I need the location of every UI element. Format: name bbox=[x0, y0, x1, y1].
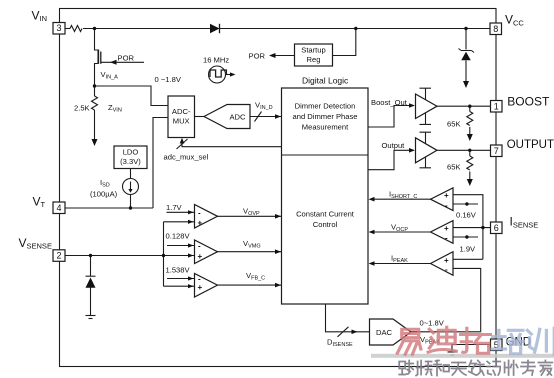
svg-text:1: 1 bbox=[494, 101, 499, 111]
svg-text:4: 4 bbox=[56, 203, 61, 213]
svg-text:Control: Control bbox=[313, 220, 338, 229]
svg-text:Boost_Out: Boost_Out bbox=[371, 98, 408, 107]
svg-text:DAC: DAC bbox=[376, 328, 393, 337]
svg-text:(100µA): (100µA) bbox=[90, 190, 118, 199]
svg-text:+: + bbox=[198, 252, 203, 261]
svg-text:0.128V: 0.128V bbox=[166, 232, 191, 241]
svg-text:adc_mux_sel: adc_mux_sel bbox=[164, 153, 209, 162]
svg-text:8: 8 bbox=[493, 24, 498, 34]
svg-text:and Dimmer Phase: and Dimmer Phase bbox=[293, 112, 358, 121]
svg-text:(3.3V): (3.3V) bbox=[120, 157, 141, 166]
svg-text:6: 6 bbox=[494, 223, 499, 233]
svg-text:+: + bbox=[444, 224, 449, 233]
svg-text:LDO: LDO bbox=[123, 148, 139, 157]
svg-text:POR: POR bbox=[118, 54, 135, 63]
svg-text:+: + bbox=[444, 256, 449, 265]
svg-text:+: + bbox=[444, 191, 449, 200]
svg-text:BOOST: BOOST bbox=[507, 94, 550, 108]
svg-text:-: - bbox=[198, 242, 201, 251]
svg-text:1.538V: 1.538V bbox=[166, 266, 191, 275]
svg-text:ADC-: ADC- bbox=[172, 107, 191, 116]
svg-text:1.9V: 1.9V bbox=[460, 245, 477, 254]
svg-text:0.16V: 0.16V bbox=[456, 210, 477, 219]
svg-text:65K: 65K bbox=[447, 120, 461, 129]
svg-text:-: - bbox=[445, 265, 448, 274]
svg-text:2.5K: 2.5K bbox=[74, 103, 90, 112]
svg-text:POR: POR bbox=[249, 52, 266, 61]
svg-text:7: 7 bbox=[494, 146, 499, 156]
svg-text:Startup: Startup bbox=[301, 46, 325, 55]
svg-text:OUTPUT: OUTPUT bbox=[507, 139, 554, 151]
svg-text:Constant Current: Constant Current bbox=[296, 210, 355, 219]
svg-text:0~1.8V: 0~1.8V bbox=[420, 318, 445, 327]
svg-text:65K: 65K bbox=[447, 163, 461, 172]
svg-text:Reg: Reg bbox=[307, 55, 321, 64]
svg-text:+: + bbox=[198, 283, 203, 292]
svg-text:ADC: ADC bbox=[229, 113, 246, 122]
svg-text:0 ~1.8V: 0 ~1.8V bbox=[155, 75, 182, 84]
svg-text:-: - bbox=[445, 201, 448, 210]
svg-text:1.7V: 1.7V bbox=[166, 203, 183, 212]
svg-text:2: 2 bbox=[56, 251, 61, 261]
svg-text:16 MHz: 16 MHz bbox=[203, 56, 229, 65]
svg-text:Output: Output bbox=[382, 141, 406, 150]
svg-text:-: - bbox=[198, 208, 201, 217]
svg-text:Measurement: Measurement bbox=[302, 123, 349, 132]
svg-text:MUX: MUX bbox=[173, 117, 190, 126]
svg-text:3: 3 bbox=[56, 23, 61, 33]
svg-text:-: - bbox=[445, 234, 448, 243]
svg-text:Dimmer Detection: Dimmer Detection bbox=[295, 102, 356, 111]
svg-text:+: + bbox=[198, 218, 203, 227]
svg-text:Digital Logic: Digital Logic bbox=[302, 76, 349, 86]
